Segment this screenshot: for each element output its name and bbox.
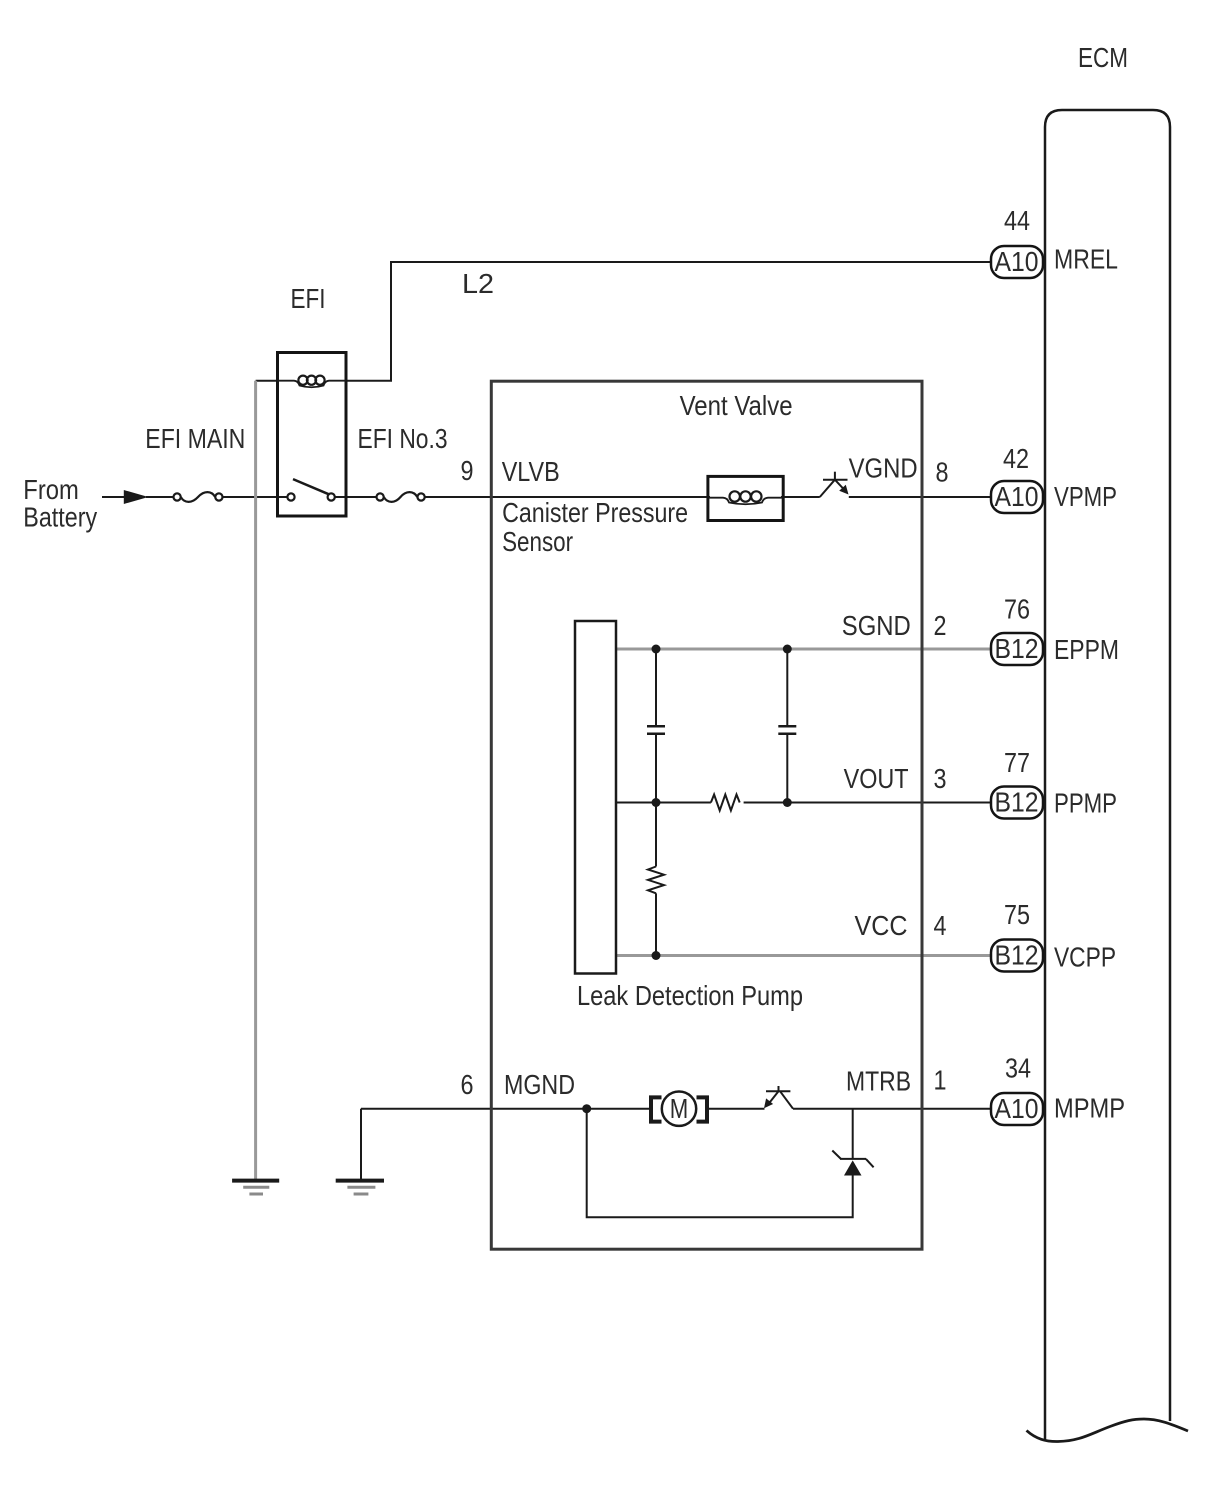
svg-text:B12: B12: [995, 633, 1039, 664]
svg-text:2: 2: [934, 610, 947, 641]
svg-text:Leak Detection Pump: Leak Detection Pump: [577, 980, 803, 1011]
svg-text:4: 4: [934, 910, 947, 941]
svg-text:VCC: VCC: [855, 910, 908, 941]
svg-text:VGND: VGND: [849, 453, 918, 484]
svg-text:VPMP: VPMP: [1054, 481, 1117, 512]
svg-text:MTRB: MTRB: [846, 1066, 911, 1097]
svg-text:B12: B12: [995, 787, 1039, 818]
svg-text:77: 77: [1004, 747, 1030, 778]
svg-text:9: 9: [461, 455, 474, 486]
svg-text:MREL: MREL: [1054, 244, 1118, 275]
svg-text:EPPM: EPPM: [1054, 634, 1119, 665]
svg-text:76: 76: [1004, 594, 1030, 625]
svg-text:From: From: [23, 474, 79, 505]
svg-text:PPMP: PPMP: [1054, 788, 1117, 819]
svg-text:MGND: MGND: [504, 1069, 575, 1100]
svg-text:Battery: Battery: [23, 502, 97, 533]
svg-text:SGND: SGND: [842, 610, 911, 641]
svg-text:1: 1: [934, 1065, 947, 1096]
svg-text:A10: A10: [995, 246, 1039, 277]
svg-text:B12: B12: [995, 940, 1039, 971]
svg-text:8: 8: [936, 457, 949, 488]
svg-text:L2: L2: [462, 268, 494, 299]
svg-text:M: M: [670, 1093, 689, 1124]
svg-text:EFI No.3: EFI No.3: [358, 423, 448, 454]
svg-text:34: 34: [1005, 1053, 1031, 1084]
svg-text:MPMP: MPMP: [1054, 1093, 1125, 1124]
svg-text:EFI MAIN: EFI MAIN: [145, 423, 245, 454]
svg-text:ECM: ECM: [1078, 42, 1128, 73]
svg-text:A10: A10: [995, 1093, 1039, 1124]
svg-text:Vent Valve: Vent Valve: [680, 390, 793, 421]
svg-text:3: 3: [934, 763, 947, 794]
svg-text:VCPP: VCPP: [1054, 942, 1116, 973]
svg-text:75: 75: [1004, 899, 1030, 930]
svg-text:44: 44: [1004, 205, 1030, 236]
svg-text:42: 42: [1003, 443, 1029, 474]
svg-text:6: 6: [461, 1069, 474, 1100]
svg-text:EFI: EFI: [291, 283, 326, 314]
svg-text:Canister Pressure: Canister Pressure: [502, 497, 688, 528]
svg-text:VOUT: VOUT: [844, 763, 909, 794]
svg-text:Sensor: Sensor: [502, 526, 573, 557]
svg-text:A10: A10: [995, 481, 1039, 512]
svg-text:VLVB: VLVB: [502, 456, 560, 487]
